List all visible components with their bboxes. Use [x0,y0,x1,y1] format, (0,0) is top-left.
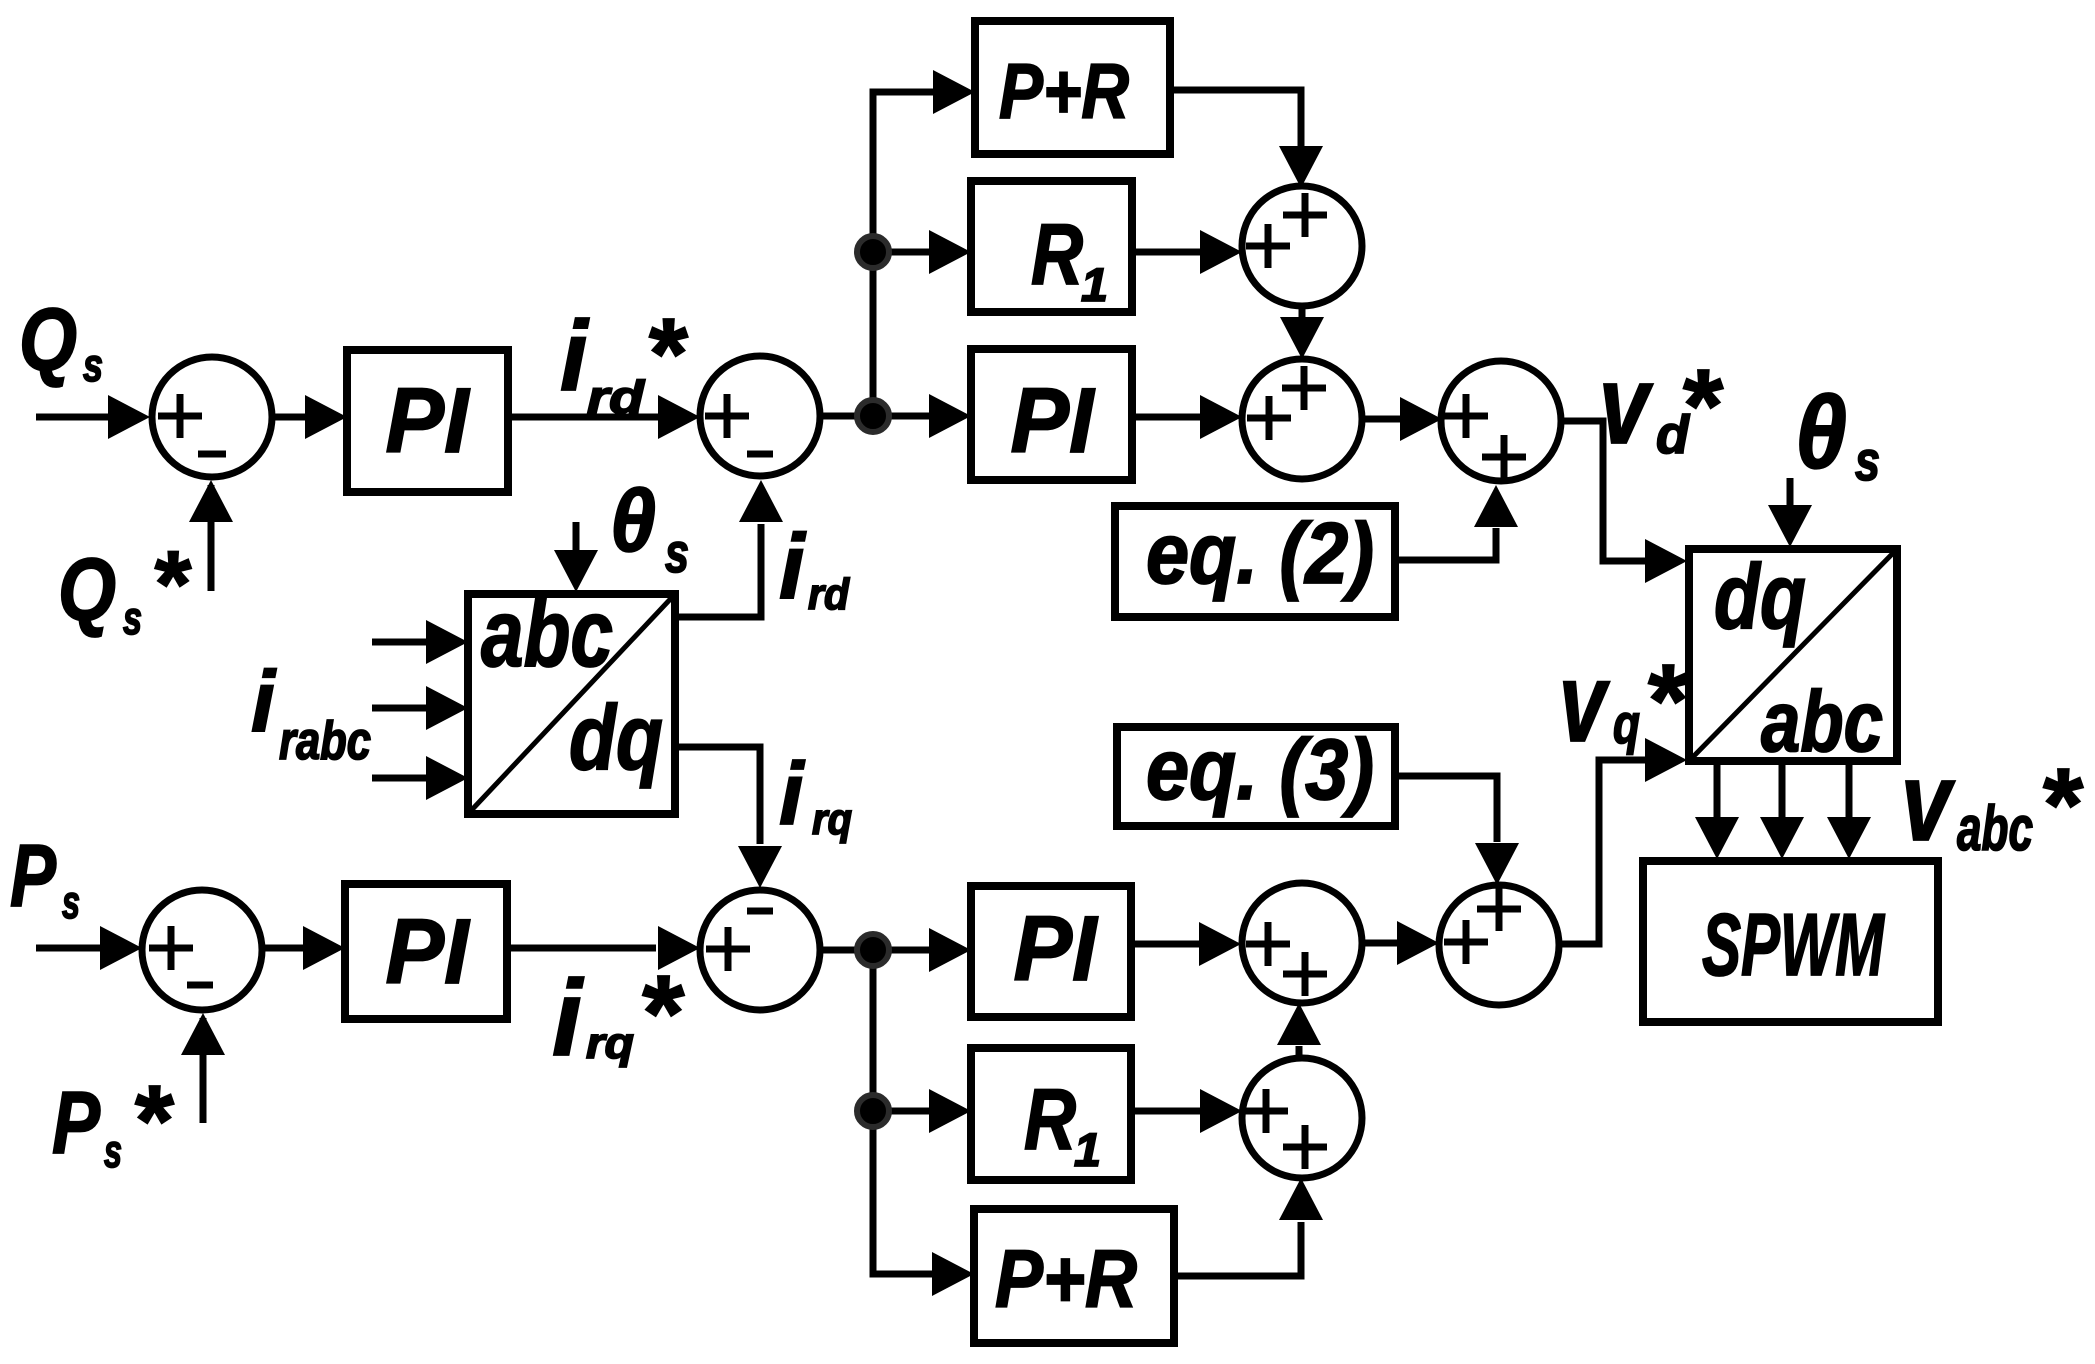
svg-text:i: i [560,300,590,411]
svg-text:i: i [552,957,584,1078]
wire JE to JF [1361,921,1439,965]
svg-text:eq. (2): eq. (2) [1146,506,1374,602]
svg-text:PI: PI [1014,898,1099,1000]
summing junction J3 (Ps - Ps*) [142,890,262,1010]
node label theta_s left [610,471,689,584]
svg-text:P+R: P+R [999,47,1129,135]
node label Ps* [52,1065,174,1177]
node label theta_s right [1795,375,1880,492]
svg-text:1: 1 [1074,1123,1101,1176]
wire eq3 output down into JF [1395,776,1519,885]
wire irabc input arrow 1 [372,620,468,664]
svg-text:P: P [10,826,56,925]
block eq3 (feed-forward eq. (3)) [1117,722,1395,826]
summing junction J4 (irq* - irq) [700,890,820,1010]
summing junction JF (JE + eq3) [1439,885,1559,1005]
svg-text:PI: PI [386,370,471,472]
node label vabc* [1901,740,2084,864]
summing junction JD (R1b + P+R2) [1242,1058,1362,1178]
wire R1b output to JD [1131,1089,1242,1133]
wire node N1 to PI2 [873,394,971,438]
block PI2 (d-axis inner PI controller) [971,349,1132,480]
svg-text:i: i [779,744,805,843]
summing junction JB (JA + PI2) [1242,359,1362,479]
node label vd* [1599,343,1724,467]
svg-text:v: v [1559,640,1610,765]
summing junction JC (JB + eq2) [1441,361,1561,481]
wire P+R2 output up into JD [1174,1178,1323,1276]
summing junction JE (PI4 + JD) [1242,883,1362,1003]
node N2 junction dot [857,236,889,268]
block abc/dq transform (rotor currents) [466,580,677,816]
node N4 junction dot [857,1095,889,1127]
svg-text:1: 1 [1081,258,1108,311]
wire PI1 to J2 (ird* reference) [512,395,700,439]
svg-text:*: * [151,531,192,636]
svg-text:*: * [2039,747,2084,862]
svg-text:θ: θ [610,471,656,570]
node label irq* [552,952,685,1078]
svg-text:*: * [1679,348,1724,463]
summing junction JA (P+R1 + R1a) [1242,186,1362,306]
svg-text:*: * [638,952,685,1073]
svg-text:s: s [104,1125,122,1177]
svg-text:Q: Q [19,290,77,389]
node label Qs* [58,531,192,644]
wire Ps input arrow [36,926,142,970]
node label vq* [1559,640,1689,765]
svg-text:rq: rq [586,1019,634,1068]
wire Ps* up arrow into J3 [181,1013,225,1123]
wire node N3 down and into P+R2 [873,950,974,1296]
svg-text:s: s [123,592,142,644]
svg-text:abc: abc [481,580,613,687]
node N1 junction dot [857,400,889,432]
svg-text:SPWM: SPWM [1702,895,1885,994]
svg-text:s: s [1855,429,1880,492]
svg-text:Q: Q [58,540,116,639]
node N3 junction dot [857,934,889,966]
wire dq/abc output b to SPWM [1760,763,1804,859]
svg-text:PI: PI [1011,370,1096,472]
block SPWM modulator [1643,861,1938,1022]
block R1a (d-axis R1 controller) [971,181,1132,312]
svg-text:θ: θ [1795,375,1847,490]
wire PI2 output to JB [1132,395,1242,439]
wire PI4 output to JE [1131,922,1241,966]
wire eq2 output up into JC [1395,485,1518,560]
wire theta_s arrow into dq/abc top [1768,478,1812,547]
node label ird [779,516,850,619]
wire J2 to node N1 [820,413,873,420]
block eq2 (feed-forward eq. (2)) [1115,506,1395,617]
wire irabc input arrow 2 [372,686,468,730]
block R1b (q-axis R1 controller) [971,1048,1131,1180]
wire JB to JC [1362,397,1442,441]
block PI3 (P-axis outer PI controller) [345,884,507,1019]
block PI1 (Q-axis outer PI controller) [347,350,508,492]
svg-text:*: * [645,298,688,410]
svg-text:q: q [1613,692,1640,755]
summing junction J2 (ird* - ird) [700,356,820,476]
wire J3 to PI3 [264,926,345,970]
svg-text:P+R: P+R [995,1234,1137,1325]
wire node N2 to R1a [873,230,971,274]
svg-text:dq: dq [1714,546,1806,648]
svg-text:rq: rq [812,795,852,844]
svg-text:i: i [251,654,277,750]
svg-text:dq: dq [569,687,663,789]
block dq/abc transform (voltage references) [1687,546,1899,770]
wire JF output vq* up into dq/abc [1558,738,1687,944]
wire P+R1 output down into JA [1170,90,1323,188]
svg-text:abc: abc [1957,794,2033,864]
svg-text:i: i [779,516,807,618]
svg-text:rd: rd [808,570,850,619]
wire dq/abc output a to SPWM [1695,763,1739,859]
node label Ps [10,826,80,928]
svg-text:s: s [62,876,80,928]
svg-text:eq. (3): eq. (3) [1146,722,1374,818]
node label irabc [251,654,371,771]
svg-text:v: v [1901,740,1955,864]
svg-text:PI: PI [386,901,471,1003]
svg-text:R: R [1031,207,1083,303]
wire abc/dq irq output down into J4 [675,747,782,888]
wire PI3 to J4 (irq* reference) [511,926,700,970]
wire node N4 to R1b [873,1089,971,1133]
svg-text:rabc: rabc [279,711,371,771]
svg-text:*: * [131,1065,174,1177]
summing junction J1 (Qs - Qs*) [152,357,272,477]
wire node N1 up and into P+R1 [873,70,975,416]
wire JC output vd* to dq/abc [1560,421,1687,583]
wire Qs* up arrow into J1 [189,480,233,591]
wire Qs input arrow [36,395,150,439]
svg-text:s: s [665,521,689,584]
svg-text:v: v [1599,343,1653,467]
svg-text:s: s [83,339,103,391]
wire JD up into JE [1277,1003,1321,1058]
block P+R1 (d-axis P+R controller) [975,21,1170,154]
wire theta_s arrow into abc/dq top [554,522,598,592]
node label Qs [19,290,103,391]
wire J1 to PI1 [274,395,347,439]
wire JA down into JB [1280,304,1324,359]
wire dq/abc output c to SPWM [1827,763,1871,859]
wire J4 to node N3 [820,947,873,954]
block PI4 (q-axis inner PI controller) [971,886,1131,1017]
block P+R2 (q-axis P+R controller) [974,1209,1174,1343]
svg-text:P: P [52,1073,100,1172]
svg-text:R: R [1024,1072,1076,1168]
svg-text:rd: rd [587,371,645,423]
svg-text:*: * [1644,643,1689,758]
node label ird* [560,298,688,423]
wire irabc input arrow 3 [372,756,468,800]
node label irq [779,744,852,844]
wire node N3 to PI4 [873,928,971,972]
wire R1a output to JA [1132,230,1242,274]
wire abc/dq ird output up into J2 [675,480,783,617]
svg-text:abc: abc [1761,674,1883,770]
